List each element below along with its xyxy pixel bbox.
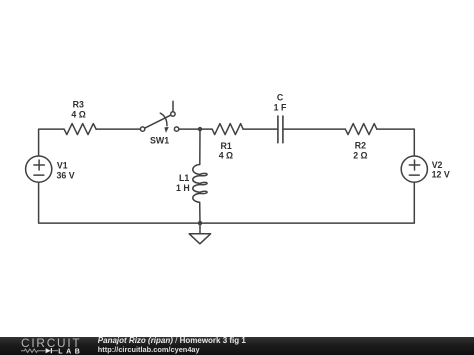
resistor R1 — [212, 124, 243, 135]
V1 body circle — [26, 156, 52, 182]
SW1 right terminal — [174, 127, 178, 131]
wire R1 to C — [243, 128, 278, 130]
voltage source V1 — [26, 156, 52, 182]
svg-text:2 Ω: 2 Ω — [353, 151, 367, 161]
V2 minus sign — [409, 174, 419, 176]
svg-text:L1: L1 — [179, 173, 189, 183]
svg-text:36 V: 36 V — [57, 171, 75, 181]
resistor R2 — [345, 124, 377, 135]
wire L1 to bottom node — [199, 202, 201, 223]
wire R3 to SW1 — [96, 128, 140, 130]
wire SW1 to node A — [179, 128, 212, 130]
svg-text:V2: V2 — [432, 160, 443, 170]
inductor L1 — [193, 164, 207, 202]
V2 plus sign — [409, 164, 419, 166]
switch SW1 — [140, 101, 178, 131]
svg-text:1 F: 1 F — [274, 102, 287, 112]
bottom junction dot — [198, 221, 202, 225]
ground — [189, 234, 210, 244]
capacitor C plates — [277, 116, 279, 143]
SW1 lever — [145, 115, 171, 128]
svg-text:Panajot Rizo (ripan) / Homewor: Panajot Rizo (ripan) / Homework 3 fig 1 — [98, 336, 247, 345]
svg-text:R3: R3 — [73, 100, 84, 110]
V1 plus sign — [34, 164, 44, 166]
svg-text:LAB: LAB — [58, 348, 83, 355]
V2 body circle — [401, 156, 427, 182]
svg-text:R1: R1 — [220, 141, 231, 151]
wire R2 to top-right corner — [377, 129, 415, 156]
svg-text:R2: R2 — [355, 141, 366, 151]
svg-text:SW1: SW1 — [150, 136, 169, 146]
resistor R3 — [64, 124, 96, 135]
SW1 arrowhead — [164, 127, 168, 133]
wire C to R2 — [283, 128, 345, 130]
CircuitLab logo schematic line — [21, 349, 45, 352]
svg-text:http://circuitlab.com/cyen4ay: http://circuitlab.com/cyen4ay — [98, 345, 201, 354]
CircuitLab logo diode — [46, 348, 51, 353]
wire V2 bottom to bottom-right corner — [200, 182, 414, 223]
wire node A down to L1 — [199, 129, 201, 164]
svg-text:4 Ω: 4 Ω — [71, 109, 85, 119]
ground stub — [199, 223, 201, 234]
SW1 left terminal — [140, 127, 144, 131]
svg-text:12 V: 12 V — [432, 170, 450, 180]
svg-text:1 H: 1 H — [176, 183, 190, 193]
SW1 throw stub — [172, 101, 174, 111]
node A junction dot — [198, 127, 202, 131]
wire top-left to R3 — [39, 129, 64, 156]
SW1 throw terminal — [171, 112, 175, 116]
wire bottom-left — [39, 182, 200, 223]
svg-text:4 Ω: 4 Ω — [219, 151, 233, 161]
svg-text:V1: V1 — [57, 161, 68, 171]
V1 minus sign — [34, 174, 44, 176]
svg-text:C: C — [277, 93, 284, 103]
SW1 action arc — [160, 113, 167, 126]
voltage source V2 — [401, 156, 427, 182]
